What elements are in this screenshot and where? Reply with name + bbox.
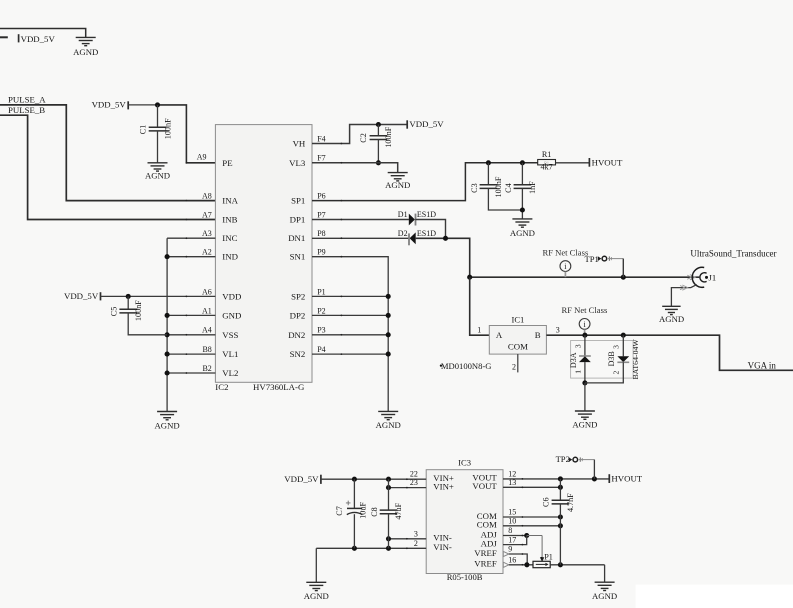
svg-text:C5: C5 <box>110 307 119 317</box>
svg-text:VREF: VREF <box>474 559 497 569</box>
svg-text:IC2: IC2 <box>215 382 228 392</box>
svg-text:1: 1 <box>477 325 481 334</box>
svg-text:VDD_5V: VDD_5V <box>21 34 56 44</box>
svg-text:AGND: AGND <box>145 171 170 181</box>
svg-text:F4: F4 <box>317 134 325 143</box>
svg-text:VSS: VSS <box>222 330 238 340</box>
svg-text:J1: J1 <box>709 272 717 282</box>
svg-text:VOUT: VOUT <box>472 481 497 491</box>
svg-text:4k7: 4k7 <box>540 163 552 172</box>
svg-text:A1: A1 <box>202 306 212 315</box>
svg-text:VDD_5V: VDD_5V <box>284 474 319 484</box>
svg-text:1nF: 1nF <box>528 181 537 194</box>
svg-text:ES1D: ES1D <box>417 229 436 238</box>
svg-text:P2: P2 <box>317 306 325 315</box>
svg-text:RF Net Class: RF Net Class <box>542 247 588 257</box>
svg-text:HVOUT: HVOUT <box>592 157 623 167</box>
svg-text:AGND: AGND <box>155 420 180 430</box>
svg-text:P8: P8 <box>317 229 325 238</box>
svg-text:VL1: VL1 <box>222 349 238 359</box>
svg-text:P1: P1 <box>544 553 553 562</box>
svg-text:VIN-: VIN- <box>433 542 452 552</box>
svg-text:VH: VH <box>293 139 306 149</box>
svg-text:P1: P1 <box>317 287 325 296</box>
svg-text:P3: P3 <box>317 326 325 335</box>
svg-text:VGA in: VGA in <box>748 360 777 370</box>
svg-text:AGND: AGND <box>304 591 329 601</box>
svg-text:AGND: AGND <box>572 420 597 430</box>
svg-text:COM: COM <box>477 520 497 530</box>
svg-text:VIN+: VIN+ <box>433 481 454 491</box>
svg-text:AGND: AGND <box>73 47 98 57</box>
svg-text:D1: D1 <box>398 210 408 219</box>
svg-text:HV7360LA-G: HV7360LA-G <box>253 382 305 392</box>
svg-text:A7: A7 <box>202 210 212 219</box>
svg-text:100nF: 100nF <box>163 118 172 139</box>
svg-text:SN1: SN1 <box>290 252 306 262</box>
svg-text:TP2: TP2 <box>556 454 570 464</box>
svg-text:VL2: VL2 <box>222 368 238 378</box>
svg-text:R05-100B: R05-100B <box>447 572 483 582</box>
svg-text:3: 3 <box>612 345 621 349</box>
svg-text:16: 16 <box>508 556 516 565</box>
svg-text:SP2: SP2 <box>291 291 305 301</box>
svg-text:VDD_5V: VDD_5V <box>64 291 99 301</box>
svg-text:C4: C4 <box>504 183 513 193</box>
svg-text:MD0100N8-G: MD0100N8-G <box>441 361 492 371</box>
svg-text:2: 2 <box>414 539 418 548</box>
svg-text:SP1: SP1 <box>291 196 305 206</box>
svg-text:D3B: D3B <box>607 351 616 366</box>
svg-text:P7: P7 <box>317 210 325 219</box>
svg-text:10: 10 <box>508 517 516 526</box>
svg-text:1: 1 <box>573 370 582 374</box>
svg-text:AGND: AGND <box>659 314 684 324</box>
svg-text:UltraSound_Transducer: UltraSound_Transducer <box>690 248 776 258</box>
svg-text:DP1: DP1 <box>290 215 306 225</box>
svg-text:A: A <box>496 330 503 340</box>
svg-text:8: 8 <box>508 526 512 535</box>
svg-text:A2: A2 <box>202 248 212 257</box>
svg-text:C8: C8 <box>370 507 379 517</box>
svg-text:D2: D2 <box>398 229 408 238</box>
svg-text:9: 9 <box>508 545 512 554</box>
svg-text:10uF: 10uF <box>358 502 367 519</box>
svg-text:100nF: 100nF <box>384 126 393 147</box>
svg-text:100nF: 100nF <box>494 176 503 197</box>
svg-text:PULSE_B: PULSE_B <box>8 105 45 115</box>
svg-text:VL3: VL3 <box>289 158 306 168</box>
svg-text:IC3: IC3 <box>458 457 471 467</box>
svg-text:A9: A9 <box>197 153 207 162</box>
svg-text:DN2: DN2 <box>288 330 305 340</box>
svg-text:C6: C6 <box>542 497 551 507</box>
svg-text:DN1: DN1 <box>288 233 305 243</box>
svg-text:VIN-: VIN- <box>433 533 452 543</box>
svg-text:P9: P9 <box>317 248 325 257</box>
svg-text:BAT64-04W: BAT64-04W <box>631 339 640 380</box>
svg-text:3: 3 <box>573 344 582 348</box>
svg-text:P4: P4 <box>317 345 325 354</box>
svg-text:C2: C2 <box>359 133 368 143</box>
svg-text:A3: A3 <box>202 229 212 238</box>
svg-text:A8: A8 <box>202 192 212 201</box>
svg-text:VREF: VREF <box>474 548 497 558</box>
svg-text:3: 3 <box>556 325 560 334</box>
svg-text:4.7nF: 4.7nF <box>566 493 575 512</box>
svg-text:VDD_5V: VDD_5V <box>409 119 444 129</box>
svg-text:F7: F7 <box>317 154 325 163</box>
svg-text:INC: INC <box>222 233 237 243</box>
svg-text:A4: A4 <box>202 326 212 335</box>
svg-text:INA: INA <box>222 196 238 206</box>
svg-text:HVOUT: HVOUT <box>611 474 642 484</box>
svg-text:B: B <box>535 330 541 340</box>
svg-text:AGND: AGND <box>385 180 410 190</box>
svg-text:B2: B2 <box>202 364 211 373</box>
svg-text:ES1D: ES1D <box>417 210 436 219</box>
svg-text:B8: B8 <box>202 345 211 354</box>
svg-text:VDD: VDD <box>222 291 241 301</box>
svg-text:COM: COM <box>508 341 528 351</box>
svg-text:GND: GND <box>222 310 241 320</box>
svg-text:VDD_5V: VDD_5V <box>92 100 127 110</box>
svg-text:C1: C1 <box>138 125 147 135</box>
svg-text:15: 15 <box>508 508 516 517</box>
svg-text:47uF: 47uF <box>394 502 403 519</box>
svg-text:RF Net Class: RF Net Class <box>561 305 607 315</box>
svg-text:R1: R1 <box>542 150 552 159</box>
svg-text:2: 2 <box>612 370 621 374</box>
svg-text:C7: C7 <box>335 506 344 516</box>
svg-text:AGND: AGND <box>376 420 401 430</box>
svg-text:DP2: DP2 <box>290 310 306 320</box>
svg-text:IND: IND <box>222 252 238 262</box>
svg-text:AGND: AGND <box>592 591 617 601</box>
svg-text:SN2: SN2 <box>290 349 306 359</box>
svg-text:INB: INB <box>222 215 237 225</box>
svg-text:P6: P6 <box>317 192 325 201</box>
svg-text:3: 3 <box>414 529 418 538</box>
svg-text:C3: C3 <box>470 183 479 193</box>
svg-text:AGND: AGND <box>510 228 535 238</box>
svg-text:D3A: D3A <box>569 352 578 368</box>
svg-text:A6: A6 <box>202 287 212 296</box>
svg-text:17: 17 <box>508 535 516 544</box>
svg-text:PULSE_A: PULSE_A <box>8 95 46 105</box>
svg-text:100nF: 100nF <box>134 300 143 321</box>
svg-text:PE: PE <box>222 158 232 168</box>
svg-text:2: 2 <box>512 362 516 371</box>
svg-text:IC1: IC1 <box>511 315 524 325</box>
